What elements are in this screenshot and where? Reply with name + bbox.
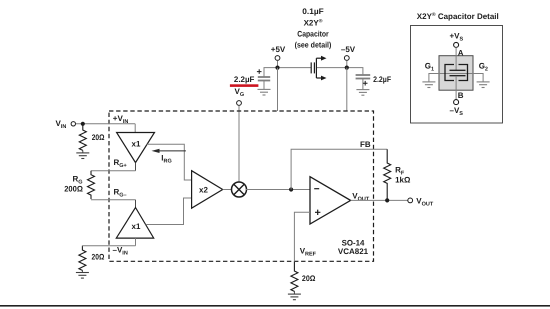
resistor 20 ohm top-left [79,124,86,150]
wire x1 top output to RG+ [135,163,137,171]
capacitor C 2.2uF right [356,75,371,90]
svg-text:IRG: IRG [161,154,171,165]
wire supply rail right segment [316,68,363,75]
wire plus input [294,212,310,261]
wire G1-G2 through body [429,74,483,82]
svg-text:x2: x2 [199,186,208,195]
svg-text:0.1µF: 0.1µF [302,7,324,16]
svg-text:X2Y® Capacitor Detail: X2Y® Capacitor Detail [417,12,499,21]
right bracket electrode [459,65,468,81]
wire RG+ [91,170,136,172]
capacitor X2Y 0.1uF [311,58,321,78]
wire B to terminal [455,76,457,100]
svg-text:(see detail): (see detail) [295,40,332,49]
amplifier x2 [192,171,223,209]
svg-text:G1: G1 [425,62,434,73]
svg-text:+5V: +5V [271,45,286,54]
minus sign [314,188,319,190]
plus sign right cap [363,81,368,86]
svg-text:–VS: –VS [450,106,464,117]
resistor 20 ohm bottom-left [79,246,86,270]
plus sign [315,210,320,215]
svg-text:20Ω: 20Ω [92,133,105,142]
svg-text:Capacitor: Capacitor [297,29,328,38]
wire VIN to +VIN [76,123,135,125]
terminal VIN [71,122,75,126]
svg-text:X2Y®: X2Y® [304,18,323,27]
wire +VS to body [455,47,457,70]
svg-text:VOUT: VOUT [416,197,434,208]
svg-text:VCA821: VCA821 [338,247,369,256]
ground G1 [422,82,435,88]
wire -VIN out to resistor [82,245,135,248]
wire RG- [91,199,136,201]
gray X2Y body [439,56,473,90]
wire +5V stem [277,61,279,68]
X2Y internal electrodes [445,65,468,81]
red highlight bar [230,84,259,87]
wire VG down to multiplier [238,106,240,183]
plus sign left cap [257,69,262,74]
svg-text:RG–: RG– [114,188,127,199]
ground VREF [288,294,301,300]
terminal +VS [454,42,459,47]
detail box [411,26,503,124]
ground G2 [477,82,490,88]
svg-text:–5V: –5V [341,45,356,54]
left bracket electrode [445,65,454,81]
wire RG- up to x1 bottom output [135,200,137,208]
bottom rule [0,305,550,307]
wire op-amp output [351,199,408,201]
svg-text:B: B [458,91,464,100]
wire to ground VREF [293,291,295,294]
plate B [450,75,466,77]
wire to ground bottom-left [81,270,83,273]
junction -5V [345,66,349,70]
svg-text:–VIN: –VIN [113,245,128,256]
svg-text:2.2µF: 2.2µF [234,75,255,84]
junction VOUT [385,198,389,202]
wire multiplier to op-amp [246,189,310,191]
wire resistor to ground [82,150,84,153]
dashed box SO-14 VCA821 [109,111,374,261]
wire +5V down to box [277,68,279,111]
wire -5V stem [346,61,348,68]
resistor RF 1k [384,149,391,200]
ground top-left [76,153,89,159]
buffer x1 bottom [116,208,153,239]
terminal +5V [275,56,280,61]
capacitor C 2.2uF left [258,77,270,90]
ground below right cap [356,90,369,96]
svg-text:20Ω: 20Ω [302,274,316,283]
terminal VOUT [408,198,413,203]
plate A [450,69,466,71]
resistor RG 200 ohm [88,171,95,199]
svg-text:x1: x1 [132,222,141,231]
arrow IRG [158,150,186,152]
wire +VIN down into buffer [134,124,136,133]
svg-text:VREF: VREF [300,247,317,258]
svg-text:2.2µF: 2.2µF [373,75,391,84]
wire x2 to multiplier [223,189,232,191]
terminal VG [237,101,242,106]
ground bottom-left [76,273,89,279]
terminal -5V [344,56,349,61]
svg-text:+VS: +VS [450,32,464,43]
svg-text:20Ω: 20Ω [92,253,105,262]
svg-text:FB: FB [360,140,371,149]
junction +5V [275,66,279,70]
junction VIN [81,122,85,126]
buffer x1 top [117,133,155,163]
svg-text:1kΩ: 1kΩ [395,176,411,185]
wire FB up [291,149,387,189]
wire -5V down to box [346,68,348,111]
wire tap x1 bottom to x2 [146,198,192,225]
svg-text:VG: VG [235,87,245,98]
op-amp output stage [310,177,351,224]
multiplier [232,182,247,197]
resistor 20 ohm VREF [291,262,298,292]
svg-text:VIN: VIN [56,119,67,130]
junction FB node [289,187,293,191]
wire tap x1 top to x2 [147,144,192,180]
ground below left cap [258,89,271,95]
svg-text:200Ω: 200Ω [64,184,83,193]
wire supply rail left segment [264,68,311,77]
svg-text:G2: G2 [479,62,488,73]
wire -VIN into buffer [135,238,137,246]
svg-text:RG+: RG+ [114,158,127,169]
svg-text:x1: x1 [132,140,141,149]
terminal B [454,100,459,105]
